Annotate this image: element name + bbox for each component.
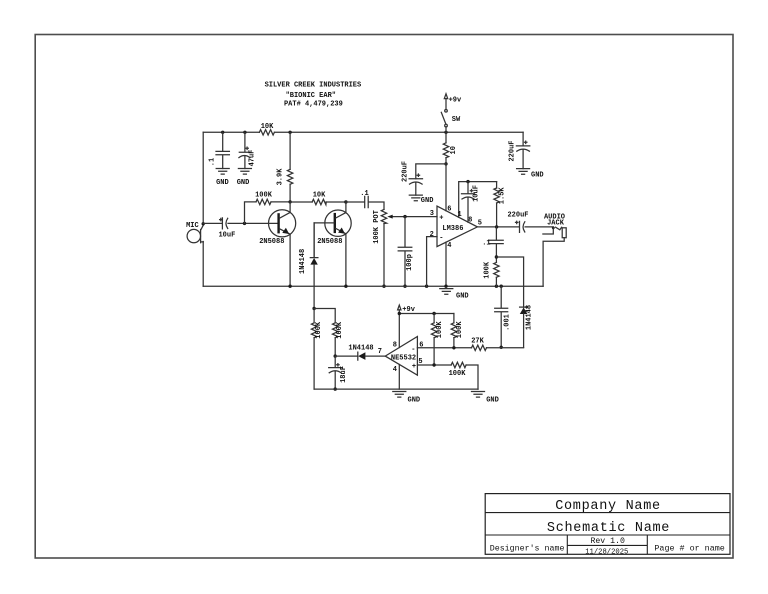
junction node (446,163.9) xyxy=(444,162,447,165)
svg-text:1N4148: 1N4148 xyxy=(526,305,534,330)
junction node (203.2,223.8) xyxy=(202,222,205,225)
svg-text:Page # or name: Page # or name xyxy=(654,544,724,554)
svg-text:10K: 10K xyxy=(261,123,274,131)
junction node (244.5,223.4) xyxy=(243,222,246,225)
resistor R11 100K xyxy=(449,362,478,389)
junction node (290.1,132.3) xyxy=(288,131,291,134)
wire GND rail bottom xyxy=(203,285,543,287)
svg-text:3: 3 xyxy=(430,210,434,218)
junction node (496.4,286.2) xyxy=(495,285,498,288)
capacitor C3 10uF xyxy=(218,218,235,240)
junction node (501.2,347.3) xyxy=(500,346,503,349)
ground sym U2 pin4 xyxy=(393,392,420,405)
resistor R8 27K xyxy=(471,337,486,350)
ground sym C6 xyxy=(409,195,433,205)
resistor R13 100K xyxy=(314,309,344,357)
transistor Q1 2N5088 xyxy=(259,202,296,286)
junction node (434.1,365) xyxy=(432,363,435,366)
ground sym R11 xyxy=(472,392,499,405)
diode D1 1N4148 vertical xyxy=(299,223,318,309)
wire mic to C3 xyxy=(203,222,222,224)
svg-text:"BIONIC EAR": "BIONIC EAR" xyxy=(286,92,336,100)
capacitor C2 47uF xyxy=(239,132,257,168)
svg-text:8: 8 xyxy=(393,341,397,349)
ground sym C2 xyxy=(237,169,252,188)
svg-text:100K: 100K xyxy=(483,261,491,279)
junction node (345.9,286.2) xyxy=(344,285,347,288)
resistor R6 1.5K xyxy=(494,182,507,227)
svg-text:100K: 100K xyxy=(315,321,323,339)
junction node (446,132.3) xyxy=(444,131,447,134)
pin 1 xyxy=(457,182,496,219)
svg-text:GND: GND xyxy=(456,292,469,300)
wire to C6 xyxy=(416,164,446,179)
junction node (453.9,347.8) xyxy=(452,346,455,349)
pin 4 xyxy=(446,242,451,286)
capacitor C11 18uF xyxy=(329,356,348,389)
junction node (345.9,202) xyxy=(344,200,347,203)
svg-text:18uF: 18uF xyxy=(340,366,348,383)
wire pin6 out xyxy=(417,347,523,349)
svg-text:100K: 100K xyxy=(336,321,344,339)
transistor Q2 2N5088 xyxy=(317,202,351,286)
resistor R7 100K xyxy=(483,261,499,286)
resistor R2 3.9K xyxy=(276,132,293,202)
resistor R10 100K xyxy=(451,314,464,348)
svg-text:-: - xyxy=(439,235,443,243)
junction node (501.2,286.2) xyxy=(500,285,503,288)
pin 6 xyxy=(446,164,452,214)
junction node (434.1,313.5) xyxy=(432,312,435,315)
junction node (335.2,356.1) xyxy=(334,354,337,357)
pin 5 output wire xyxy=(477,220,519,228)
resistor R12 100K xyxy=(311,309,323,390)
svg-text:Company Name: Company Name xyxy=(555,499,661,514)
svg-text:GND: GND xyxy=(486,396,499,404)
svg-text:2N5088: 2N5088 xyxy=(317,238,342,246)
capacitor C12 220uF xyxy=(508,140,530,168)
svg-text:GND: GND xyxy=(237,179,250,187)
wire feedback riser xyxy=(245,202,257,224)
wire pin5 in xyxy=(417,364,451,366)
svg-text:4: 4 xyxy=(447,242,451,250)
capacitor C10 .001 xyxy=(495,286,512,347)
svg-text:8: 8 xyxy=(468,216,472,224)
diode D2 1N4148 xyxy=(520,305,534,347)
wire pin2 riser xyxy=(427,237,437,287)
junction node (446,286.2) xyxy=(444,285,447,288)
svg-text:NE5532: NE5532 xyxy=(391,354,416,362)
resistor R3 100K xyxy=(255,191,273,204)
svg-text:.1: .1 xyxy=(482,240,490,248)
svg-text:220uF: 220uF xyxy=(402,161,410,182)
capacitor C8 220uF output xyxy=(507,211,528,232)
wire +9v top U2 xyxy=(399,313,454,315)
svg-text:GND: GND xyxy=(216,179,229,187)
svg-text:5: 5 xyxy=(478,220,482,228)
svg-text:Designer's name: Designer's name xyxy=(490,543,565,553)
power +9v arrow SW xyxy=(444,94,462,110)
node junction rail-left xyxy=(221,131,224,134)
svg-text:11/28/2025: 11/28/2025 xyxy=(585,548,628,556)
junction node (335.2,389.1) xyxy=(334,387,337,390)
wire top rail to C12 xyxy=(522,132,524,146)
resistor R4 10K xyxy=(290,191,346,204)
capacitor C6 220uF xyxy=(402,161,423,195)
junction node (290.1,201.9) xyxy=(288,200,291,203)
svg-text:10uF: 10uF xyxy=(473,185,481,202)
svg-text:MIC: MIC xyxy=(186,222,199,230)
wire C8 to jack xyxy=(525,226,553,228)
microphone MIC xyxy=(186,222,203,243)
resistor R5 10 xyxy=(443,132,458,164)
svg-text:SW: SW xyxy=(452,116,461,124)
svg-text:4: 4 xyxy=(393,366,397,374)
ground sym C12 xyxy=(517,169,544,180)
wire Q2 base riser xyxy=(314,223,334,258)
svg-text:PAT# 4,479,239: PAT# 4,479,239 xyxy=(284,100,343,108)
pin 8 xyxy=(393,314,400,350)
svg-text:100p: 100p xyxy=(406,254,414,271)
svg-text:JACK: JACK xyxy=(547,220,565,228)
svg-text:3.9K: 3.9K xyxy=(276,168,284,186)
capacitor C9 .1 xyxy=(482,227,503,263)
svg-text:100K POT: 100K POT xyxy=(373,210,381,244)
wire C3 to Q1 base xyxy=(228,222,277,224)
svg-text:.1: .1 xyxy=(360,190,368,198)
power +9v arrow U2 xyxy=(398,305,416,314)
ground sym C1 xyxy=(216,169,229,188)
svg-text:GND: GND xyxy=(421,197,434,205)
svg-text:6: 6 xyxy=(447,205,451,213)
title block xyxy=(485,494,730,557)
switch SW xyxy=(441,110,461,133)
svg-text:GND: GND xyxy=(531,172,544,180)
svg-text:+9v: +9v xyxy=(449,96,462,104)
svg-text:.1: .1 xyxy=(209,158,217,166)
ground sym main xyxy=(440,289,469,301)
svg-text:+: + xyxy=(439,215,443,223)
svg-text:1N4148: 1N4148 xyxy=(348,344,373,352)
svg-text:GND: GND xyxy=(408,396,421,404)
op-amp U1 LM386 xyxy=(437,206,477,247)
junction node (426.6,286.2) xyxy=(425,285,428,288)
junction node (290.1,286.2) xyxy=(288,285,291,288)
svg-text:2N5088: 2N5088 xyxy=(259,238,284,246)
junction node (468,181.6) xyxy=(466,180,469,183)
diode D3 1N4148 horizontal xyxy=(335,344,385,360)
op-amp U2 NE5532 xyxy=(385,337,417,376)
svg-text:27K: 27K xyxy=(471,337,484,345)
svg-text:220uF: 220uF xyxy=(508,140,516,161)
svg-text:Rev 1.0: Rev 1.0 xyxy=(590,537,624,546)
capacitor C4 .1 xyxy=(346,190,384,210)
pin 4 xyxy=(393,365,400,390)
junction node (244.9,132.3) xyxy=(243,131,246,134)
junction node (314.1,308.5) xyxy=(312,307,315,310)
svg-text:1: 1 xyxy=(457,211,461,219)
svg-text:100K: 100K xyxy=(456,321,464,339)
svg-text:LM386: LM386 xyxy=(442,225,463,233)
svg-text:Schematic Name: Schematic Name xyxy=(547,521,670,536)
capacitor C7 10uF xyxy=(462,180,481,222)
wire R3 to collector node xyxy=(271,201,290,203)
wire C9 branch to D2 xyxy=(496,257,523,307)
capacitor C1 .1 xyxy=(209,132,230,168)
junction node (496.6,226.9) xyxy=(495,225,498,228)
junction node (496.4,257) xyxy=(495,255,498,258)
junction node (553.3,227.9) xyxy=(552,227,555,230)
junction node (405,216.6) xyxy=(403,215,406,218)
svg-text:2: 2 xyxy=(430,231,434,239)
resistor R1 10K xyxy=(259,123,274,135)
svg-text:100K: 100K xyxy=(255,191,273,199)
capacitor C5 100p xyxy=(398,217,414,287)
svg-text:100K: 100K xyxy=(449,370,467,378)
svg-text:220uF: 220uF xyxy=(507,211,528,219)
svg-text:SILVER CREEK INDUSTRIES: SILVER CREEK INDUSTRIES xyxy=(265,82,362,90)
junction node (384,286.2) xyxy=(382,285,385,288)
svg-text:100K: 100K xyxy=(436,321,444,339)
svg-text:10uF: 10uF xyxy=(218,231,235,239)
wire AGC bottom xyxy=(314,388,478,390)
svg-text:47uF: 47uF xyxy=(248,150,256,167)
wire top V+ rail xyxy=(203,131,523,133)
schematic title text xyxy=(265,82,362,109)
connector J1 audio jack xyxy=(543,213,566,286)
svg-text:10: 10 xyxy=(450,146,458,154)
svg-text:.001: .001 xyxy=(503,314,511,331)
svg-text:-: - xyxy=(411,346,415,354)
svg-text:10K: 10K xyxy=(313,191,326,199)
resistor R9 100K xyxy=(431,314,444,366)
junction node (405,286.2) xyxy=(403,285,406,288)
svg-text:+: + xyxy=(412,363,416,371)
svg-text:7: 7 xyxy=(378,348,382,356)
svg-text:1N4148: 1N4148 xyxy=(299,249,307,274)
potentiometer VR1 100K POT xyxy=(373,209,437,286)
wire mic V+ left rail xyxy=(202,132,204,286)
svg-text:1.5K: 1.5K xyxy=(499,187,507,205)
